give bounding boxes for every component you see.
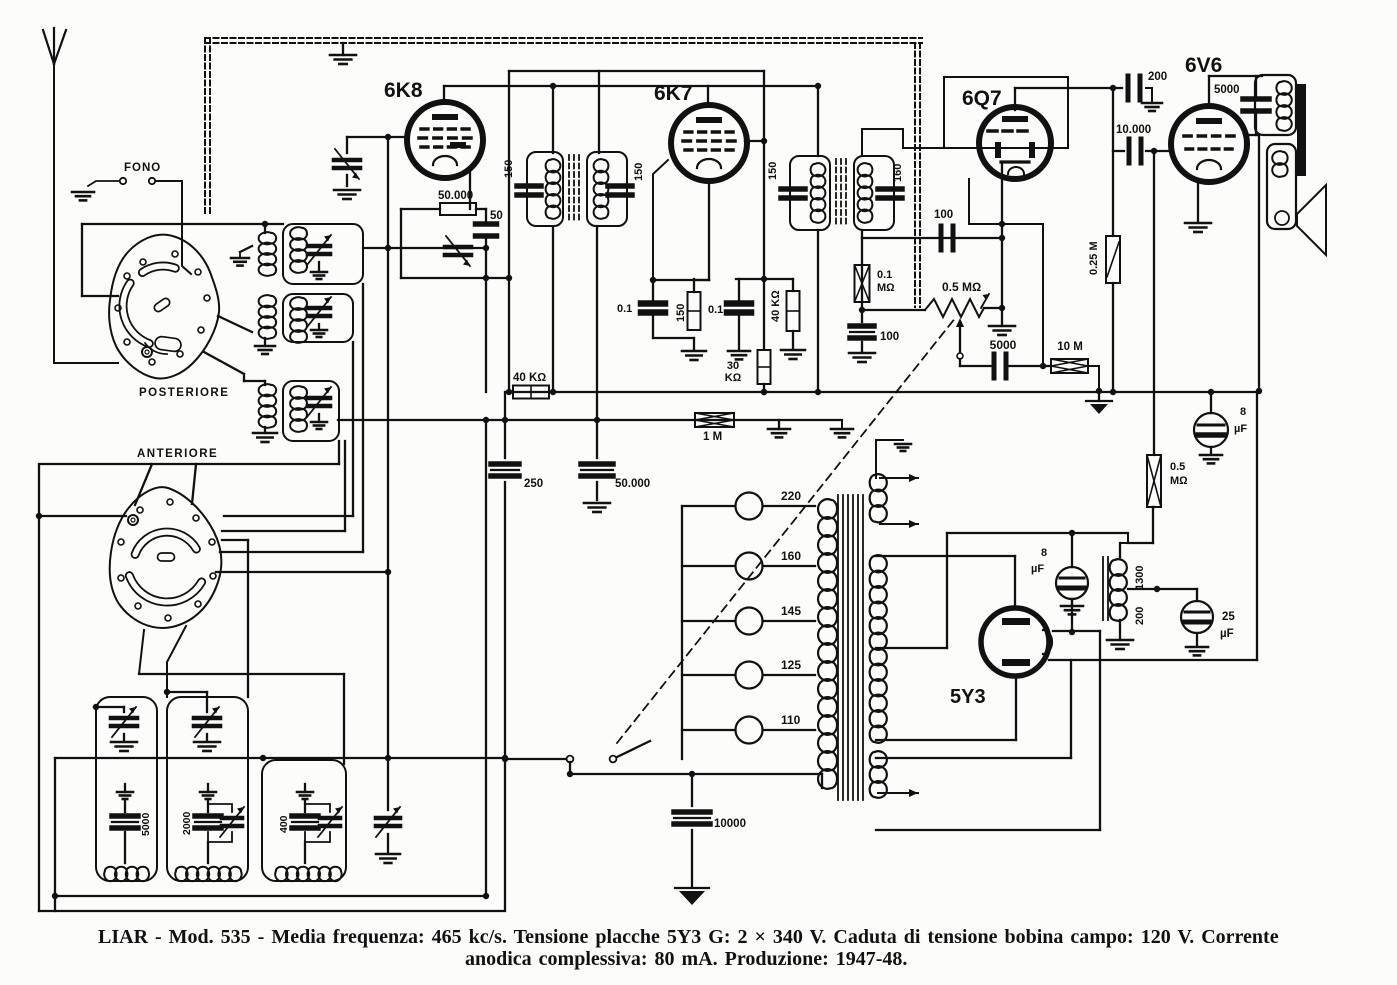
svg-text:220: 220 [781,489,801,503]
svg-text:5Y3: 5Y3 [950,686,986,708]
svg-text:0.5: 0.5 [1170,461,1185,473]
svg-text:110: 110 [781,713,801,727]
svg-text:150: 150 [675,304,687,322]
svg-text:8: 8 [1240,406,1246,418]
svg-text:KΩ: KΩ [725,372,742,384]
svg-text:10000: 10000 [714,818,746,830]
svg-text:MΩ: MΩ [877,282,895,294]
svg-text:30: 30 [727,360,739,372]
svg-text:50.000: 50.000 [438,190,473,202]
svg-text:125: 125 [781,658,801,672]
svg-text:160: 160 [892,164,904,182]
svg-text:6K7: 6K7 [654,82,693,105]
svg-text:6V6: 6V6 [1185,54,1222,77]
svg-text:6Q7: 6Q7 [962,87,1002,110]
svg-text:5000: 5000 [990,338,1017,352]
svg-text:0.1: 0.1 [708,304,723,316]
svg-text:µF: µF [1220,628,1234,640]
svg-text:POSTERIORE: POSTERIORE [139,387,229,399]
svg-text:1300: 1300 [1134,566,1146,590]
svg-text:µF: µF [1031,563,1044,575]
svg-text:ANTERIORE: ANTERIORE [137,448,218,460]
svg-text:25: 25 [1222,611,1235,623]
svg-text:40 KΩ: 40 KΩ [770,290,782,322]
svg-text:50: 50 [490,210,503,222]
svg-text:150: 150 [633,163,645,181]
svg-text:150: 150 [503,160,515,178]
svg-text:0.25 M: 0.25 M [1088,241,1100,275]
svg-text:µF: µF [1234,423,1247,435]
svg-text:150: 150 [767,162,779,180]
svg-text:FONO: FONO [124,162,161,174]
svg-text:MΩ: MΩ [1170,475,1188,487]
svg-text:2000: 2000 [181,811,193,835]
svg-text:5000: 5000 [1214,84,1240,96]
svg-text:1 M: 1 M [703,431,722,443]
svg-text:200: 200 [1134,607,1146,625]
svg-text:10.000: 10.000 [1116,124,1151,136]
svg-text:250: 250 [524,478,543,490]
svg-text:10 M: 10 M [1057,341,1083,353]
svg-text:160: 160 [781,549,801,563]
svg-text:400: 400 [278,815,290,833]
svg-text:5000: 5000 [140,812,152,836]
svg-text:40 KΩ: 40 KΩ [513,372,546,384]
svg-text:0.5 MΩ: 0.5 MΩ [942,280,981,294]
svg-text:50.000: 50.000 [615,478,650,490]
svg-text:100: 100 [880,331,899,343]
svg-text:200: 200 [1148,71,1167,83]
svg-text:0.1: 0.1 [617,303,632,315]
svg-text:6K8: 6K8 [384,79,423,102]
svg-text:100: 100 [934,209,953,221]
svg-text:0.1: 0.1 [877,269,892,281]
svg-text:8: 8 [1041,547,1047,559]
svg-text:145: 145 [781,604,801,618]
